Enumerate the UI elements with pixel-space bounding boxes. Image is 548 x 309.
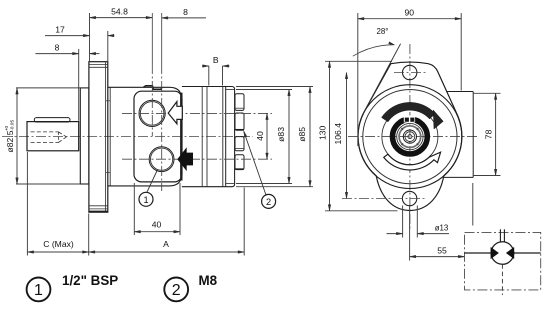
svg-text:106.4: 106.4: [333, 123, 343, 145]
svg-text:M8: M8: [199, 273, 218, 288]
svg-text:B: B: [213, 55, 219, 65]
svg-text:1: 1: [143, 195, 148, 205]
svg-text:78: 78: [483, 129, 493, 139]
svg-text:28°: 28°: [377, 27, 389, 36]
svg-text:ø83: ø83: [276, 127, 286, 142]
svg-text:40: 40: [255, 131, 265, 141]
svg-text:1: 1: [34, 282, 43, 299]
svg-text:54.8: 54.8: [111, 6, 128, 16]
svg-text:130: 130: [318, 125, 328, 140]
svg-text:2: 2: [266, 197, 271, 207]
svg-text:90: 90: [405, 8, 415, 18]
svg-text:ø82.5: ø82.5: [5, 130, 15, 152]
svg-text:ø13: ø13: [435, 223, 449, 232]
svg-text:ø85: ø85: [297, 127, 307, 142]
svg-text:2: 2: [172, 282, 181, 299]
svg-text:C (Max): C (Max): [43, 239, 74, 249]
svg-text:55: 55: [437, 246, 447, 256]
svg-text:17: 17: [55, 25, 65, 35]
svg-text:40: 40: [152, 219, 162, 229]
svg-text:8: 8: [183, 7, 188, 17]
svg-text:8: 8: [55, 43, 60, 53]
svg-text:1/2" BSP: 1/2" BSP: [62, 273, 118, 288]
svg-text:-0.05: -0.05: [9, 120, 15, 131]
svg-text:+0: +0: [4, 125, 10, 131]
svg-text:A: A: [163, 239, 169, 249]
